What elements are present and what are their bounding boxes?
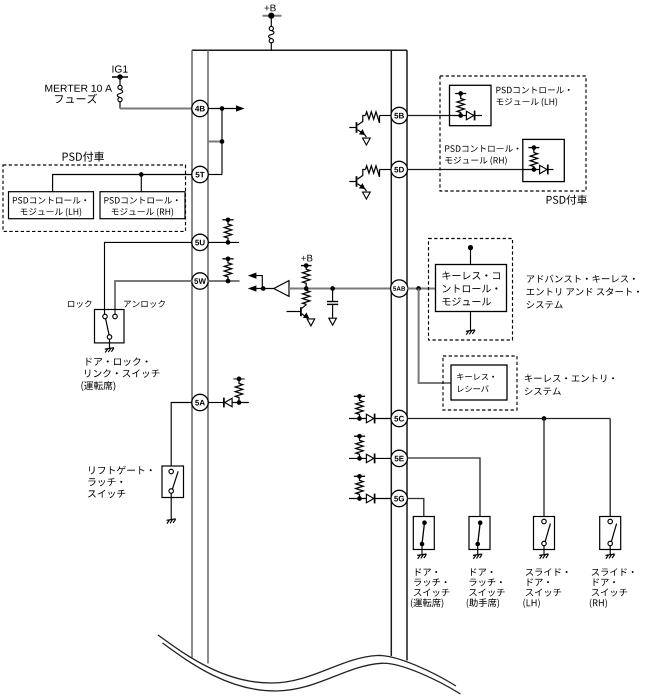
- label ドア・ラッチ・スイッチ(運転席): [416, 568, 437, 576]
- wire buffer input to 5AB: [289, 288, 391, 290]
- label PSD付車 (bottom right): [547, 195, 587, 205]
- resistor and diode (at 5C): [349, 418, 366, 420]
- switch: slide door switch RH: [600, 517, 621, 550]
- box keyless control module: [436, 265, 507, 312]
- node +B (battery, top): [265, 5, 276, 12]
- switch: door lock link switch box: [95, 310, 125, 343]
- buffer U1 (inverter triangle): [274, 281, 289, 297]
- wire stub to bus at junction: [208, 141, 222, 143]
- box keyless receiver: [451, 365, 507, 400]
- wire break wave (upper): [158, 635, 456, 686]
- label キーレス・レシーバ: [457, 373, 494, 380]
- ground arrow (C1): [329, 318, 337, 325]
- switch: door latch switch (driver): [413, 517, 434, 550]
- label ドア・ロック・リンク・スイッチ(運転席): [86, 357, 147, 366]
- label PSDコントロール・モジュール (RH): [104, 197, 177, 204]
- ground (keyless control module): [466, 330, 475, 335]
- ground (door lock link switch): [105, 348, 114, 353]
- dashed box (keyless entry system): [443, 356, 517, 410]
- wire: left bus outer line: [191, 50, 193, 657]
- resistor R5 (in PSD module RH): [528, 147, 539, 149]
- wire fuse to module top: [270, 43, 272, 51]
- wire fuse to connector 4B: [119, 102, 121, 109]
- wire 5C to slide door switches: [407, 418, 610, 420]
- node +B (internal): [301, 255, 312, 262]
- connector 5AB: [391, 280, 408, 297]
- ground arrow (Q3 emitter): [307, 319, 315, 326]
- junction in PSD module LH: [450, 115, 467, 117]
- liftgate switch terminal top: [169, 469, 174, 474]
- ground (liftgate latch switch): [167, 519, 176, 524]
- wire: right bus outer line: [390, 50, 392, 656]
- resistor R7 (to Q3 collector): [303, 290, 310, 305]
- connector 5A: [192, 394, 208, 410]
- switch: liftgate latch switch box: [162, 466, 184, 498]
- junction above PSD module RH: [139, 172, 144, 177]
- junction R6/R7: [304, 286, 309, 291]
- box PSD control module LH: [9, 192, 94, 219]
- wire 5B to PSD control module LH: [407, 115, 450, 117]
- resistor R6 (pull-up to +B): [303, 266, 310, 287]
- wire down to slide door switch LH: [543, 419, 545, 517]
- junction on 5AB wire: [416, 286, 421, 291]
- box PSD control module RH: [100, 192, 185, 219]
- arrow output 1 (to other circuit): [248, 273, 257, 279]
- wire 5A internal: [208, 402, 224, 404]
- wire 5W to door lock switch (unlock): [115, 281, 192, 314]
- fuse F1 (fusible link): [269, 26, 273, 30]
- power stub of keyless control module: [470, 249, 472, 264]
- label キーレス・コントロール・モジュール: [443, 271, 500, 279]
- switch blade (closed to lock): [106, 319, 110, 335]
- arrow output 2 (to other circuit): [248, 285, 257, 291]
- switch: slide door switch LH: [534, 517, 555, 550]
- wire IG1 to fuse: [119, 77, 121, 85]
- connector 5B: [391, 107, 407, 123]
- label キーレス・エントリ・システム: [525, 374, 614, 382]
- connector 5D: [391, 161, 407, 177]
- wire keyless control module to ground: [470, 312, 472, 331]
- wire 4B internal with arrow: [208, 108, 236, 110]
- switch: door latch switch (passenger): [469, 517, 490, 550]
- junction on 4B wire: [220, 106, 225, 111]
- liftgate switch terminal bottom: [169, 489, 174, 494]
- label リフトゲート・ラッチ・スイッチ: [89, 466, 152, 475]
- fuse MERTER 10 A: [118, 85, 122, 89]
- junction at R3: [237, 400, 242, 405]
- junction on 5C wire: [542, 416, 547, 421]
- diode D1 (at 5A): [223, 398, 225, 408]
- wire switch common to ground: [109, 339, 111, 348]
- label PSDコントロール・モジュール (LH) right: [496, 87, 569, 94]
- junction at capacitor C1: [330, 286, 335, 291]
- wire 5AB to keyless control module: [407, 288, 436, 290]
- wire: left bus inner line: [207, 50, 209, 663]
- switch common terminal: [107, 335, 112, 340]
- resistor R4 (in PSD module LH): [455, 93, 466, 95]
- label アドバンスト・キーレス・エントリ アンド スタート・システム: [527, 275, 635, 283]
- wire 4B branch down to 5T: [221, 109, 223, 175]
- resistor R2 (pull-up at 5W): [222, 258, 233, 260]
- label ロック: [68, 300, 92, 308]
- wire 5W internal stub: [208, 280, 239, 282]
- wire 5A to liftgate latch switch: [171, 403, 192, 466]
- resistor and diode (at 5G): [349, 498, 366, 500]
- wire 5U to door lock switch: [105, 242, 192, 314]
- resistor R1 (pull-up at 5U): [222, 219, 233, 221]
- capacitor C1: [332, 289, 334, 302]
- wire: module top edge: [192, 49, 407, 51]
- wire break wave (lower): [163, 643, 461, 694]
- box PSD control module LH (right): [450, 85, 492, 125]
- transistor Q3: [302, 305, 307, 309]
- wire 5U internal stub: [208, 241, 239, 243]
- resistor and diode (at 5E): [349, 457, 366, 459]
- connector 5E: [391, 450, 407, 466]
- diode D2 (in PSD module LH): [466, 111, 473, 119]
- label PSDコントロール・モジュール (RH) right: [445, 145, 518, 152]
- transistor Q2 with resistor (at 5D): [366, 166, 380, 177]
- wire 5G to door latch switch (driver): [407, 499, 424, 517]
- junction at R1: [226, 240, 231, 245]
- connector 5C: [391, 410, 407, 426]
- wire 5D to PSD control module RH: [407, 169, 523, 171]
- label PSDコントロール・モジュール (LH): [13, 197, 86, 204]
- label スライド・ドア・スイッチ(RH): [592, 568, 634, 576]
- connector 5G: [391, 490, 407, 506]
- junction at R2: [226, 279, 231, 284]
- box PSD control module RH (right): [523, 139, 565, 181]
- connector 5U: [192, 234, 208, 250]
- liftgate switch blade (open): [172, 471, 178, 489]
- connector 5W: [192, 273, 208, 289]
- label MERTER 10 A fuse: [45, 85, 112, 92]
- junction in PSD module RH: [523, 169, 540, 171]
- switch terminal lock: [103, 314, 108, 319]
- connector 5T: [192, 166, 208, 182]
- node IG1: [113, 65, 128, 72]
- transistor Q1 with resistor (at 5B): [366, 112, 380, 123]
- label PSD付車 (top left): [63, 152, 104, 162]
- label ドア・ラッチ・スイッチ(助手席): [471, 568, 492, 576]
- dashed box PSD付車 (right): [440, 76, 586, 191]
- wire to keyless receiver: [419, 289, 451, 384]
- dashed box (advanced keyless system): [429, 239, 513, 341]
- wire: right bus inner line: [406, 50, 408, 660]
- resistor R3 (pull-up at 5A): [233, 378, 244, 380]
- wire 5E to door latch switch (passenger): [407, 458, 480, 517]
- label アンロック: [124, 300, 165, 308]
- wire +B to fuse: [270, 16, 272, 27]
- wire 5T to PSD control modules: [53, 175, 192, 192]
- connector 4B: [192, 100, 208, 116]
- junction at buffer output: [261, 286, 266, 291]
- wire down to slide door switch RH: [609, 419, 611, 517]
- dashed box PSD付車 (left): [3, 165, 186, 231]
- wire liftgate switch to ground: [170, 493, 172, 519]
- diode D3 (in PSD module RH): [540, 165, 547, 173]
- label スライド・ドア・スイッチ(LH): [526, 568, 568, 576]
- switch terminal unlock: [113, 314, 118, 319]
